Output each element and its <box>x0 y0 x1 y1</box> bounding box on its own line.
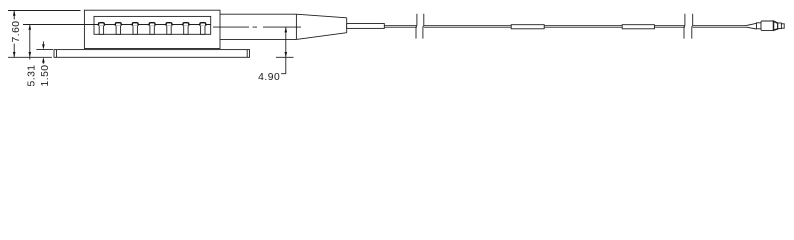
connector ferrule tip <box>781 24 784 28</box>
baseplate <box>54 50 250 58</box>
pin 5 cap <box>166 23 172 26</box>
connector front sleeve <box>778 23 782 29</box>
connector crimp ring <box>757 23 762 29</box>
pin 7 cap <box>200 23 206 26</box>
dimension 4.90 line <box>281 27 286 74</box>
arrow 1.50 top <box>42 44 45 49</box>
svg-text:5.31: 5.31 <box>26 64 37 86</box>
pin 2 body <box>116 26 120 35</box>
splice collar A <box>511 25 544 29</box>
dimension 7.60 line <box>13 11 15 58</box>
pin 5 body <box>167 26 171 35</box>
pin 3 cap <box>132 23 138 26</box>
package inner lid <box>94 16 211 34</box>
splice collar B <box>622 25 654 29</box>
break mark 1 <box>416 14 424 39</box>
extension line plate top <box>36 49 53 51</box>
seam centerline extension <box>23 24 211 26</box>
pin 6 cap <box>183 23 189 26</box>
extension line plate bottom <box>8 56 52 58</box>
connector cone <box>774 21 778 30</box>
package outer body <box>84 10 220 48</box>
arrow 7.60 top <box>13 11 16 16</box>
dimension 1.50 line <box>42 41 44 63</box>
arrows <box>13 11 287 63</box>
fiber centerline dash-dot <box>213 26 301 28</box>
baseplate end seams <box>57 50 248 58</box>
arrow 4.90 top <box>285 27 288 32</box>
labels <box>11 20 280 86</box>
extension line 4.90 bottom <box>276 56 294 58</box>
arrow 5.31 top <box>29 25 32 30</box>
boot tube <box>347 24 385 29</box>
svg-text:1.50: 1.50 <box>40 64 51 86</box>
pin 4 body <box>150 26 154 35</box>
fiber cable segment 1 <box>384 26 417 28</box>
pin 6 body <box>184 26 188 35</box>
arrow 5.31 bottom <box>29 52 32 57</box>
pin 7 body <box>201 26 205 35</box>
arrow 4.90 bottom <box>285 52 288 57</box>
cable group <box>384 26 746 28</box>
pin 4 cap <box>149 23 155 26</box>
break mark 2 <box>684 14 693 39</box>
connector body <box>761 21 774 30</box>
connector group <box>747 21 785 30</box>
connector boot <box>747 23 757 29</box>
pin 1 body <box>99 26 103 35</box>
dimension 5.31 line <box>29 25 31 60</box>
taper <box>296 14 346 39</box>
svg-text:7.60: 7.60 <box>11 20 22 42</box>
arrow 7.60 bottom <box>13 52 16 57</box>
pins group <box>99 23 206 35</box>
arrow 1.50 bottom <box>42 57 45 62</box>
pin 2 cap <box>115 23 121 26</box>
fiber cable segment 3 <box>693 26 747 28</box>
extension line package top <box>8 10 81 12</box>
snout <box>220 14 296 39</box>
fiber cable segment 2 <box>424 26 685 28</box>
pin 3 body <box>133 26 137 35</box>
svg-text:4.90: 4.90 <box>258 72 280 83</box>
pin 1 cap <box>99 23 105 26</box>
